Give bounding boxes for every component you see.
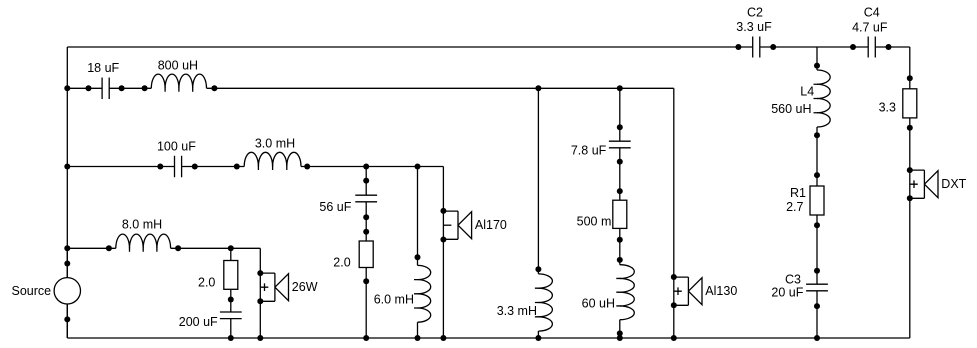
- resistor 500 m: [613, 200, 627, 228]
- svg-text:500 m: 500 m: [577, 215, 612, 229]
- dots AI130 column: [671, 274, 677, 341]
- svg-text:26W: 26W: [292, 280, 318, 294]
- junction dots row4: [64, 245, 234, 251]
- svg-text:C3: C3: [785, 272, 801, 286]
- svg-text:800 uH: 800 uH: [158, 58, 198, 72]
- dots 620 column: [617, 124, 623, 341]
- wire 2.0/200uF shunt column: [230, 248, 232, 338]
- wire 6.0 mH shunt column: [417, 167, 419, 339]
- dots AI170 column: [440, 208, 446, 341]
- svg-text:C4: C4: [864, 5, 880, 19]
- capacitor 100 uF: [175, 156, 182, 178]
- svg-text:4.7 uF: 4.7 uF: [852, 20, 888, 34]
- inductor 3.3 mH: [538, 274, 552, 331]
- svg-text:R1: R1: [790, 186, 806, 200]
- wire L4/R1/C3 column: [816, 47, 818, 338]
- svg-text:18 uF: 18 uF: [87, 61, 119, 75]
- inductor 8.0 mH: [116, 234, 171, 248]
- speaker 26W woofer: [260, 273, 288, 301]
- dots 56uF/2.0 column: [363, 178, 369, 341]
- svg-text:56 uF: 56 uF: [319, 200, 351, 214]
- svg-text:7.8 uF: 7.8 uF: [571, 144, 607, 158]
- capacitor 18 uF: [102, 78, 109, 100]
- svg-text:2.0: 2.0: [333, 256, 350, 270]
- speaker Al170 midrange: [443, 211, 471, 239]
- svg-text:3.0 mH: 3.0 mH: [255, 136, 295, 150]
- inductor L4 560 uH: [817, 70, 830, 127]
- wire top bus: [67, 46, 910, 48]
- capacitor C3 20 uF: [806, 284, 828, 291]
- svg-text:2.0: 2.0: [198, 276, 215, 290]
- resistor 2.0 (midrange): [359, 241, 373, 268]
- svg-text:200 uF: 200 uF: [179, 315, 218, 329]
- inductor 6.0 mH: [418, 265, 431, 322]
- wire row3 midrange-branch horizontal: [67, 166, 443, 168]
- speaker DXT tweeter: [910, 170, 938, 198]
- wire 7.8uF/500m/60uH column: [619, 88, 621, 338]
- svg-text:60 uH: 60 uH: [582, 296, 615, 310]
- source terminal dots: [64, 261, 70, 323]
- resistor R1 2.7: [810, 186, 824, 215]
- capacitor 200 uF: [220, 312, 242, 319]
- svg-text:560 uH: 560 uH: [771, 102, 811, 116]
- capacitor C4 4.7 uF: [868, 37, 875, 58]
- dots 3.3 mH column: [535, 266, 541, 341]
- capacitor C2 3.3 uF: [753, 37, 760, 58]
- dots 26W column: [257, 270, 263, 341]
- inductor 60 uH: [620, 265, 635, 320]
- wire left bus vertical: [66, 47, 68, 338]
- wire 26W speaker column: [259, 248, 261, 338]
- wire 56uF/2.0 shunt column: [365, 167, 367, 339]
- svg-text:Source: Source: [12, 284, 52, 298]
- svg-text:C2: C2: [747, 6, 763, 20]
- svg-text:L4: L4: [800, 84, 814, 98]
- inductor 800 uH: [151, 74, 206, 88]
- wire bottom bus: [67, 337, 910, 339]
- svg-text:Al130: Al130: [705, 284, 737, 298]
- svg-text:DXT: DXT: [941, 177, 966, 191]
- wire source column stubs: [66, 248, 68, 338]
- junction dots row2: [64, 85, 623, 91]
- capacitor 7.8 uF: [609, 141, 631, 148]
- wire AI170 speaker column: [442, 167, 444, 339]
- svg-text:8.0 mH: 8.0 mH: [122, 218, 162, 232]
- resistor 2.0 (woofer zobel): [224, 261, 238, 290]
- svg-text:3.3: 3.3: [879, 101, 896, 115]
- wire 3.3 mH shunt column: [537, 88, 539, 338]
- wire row4 woofer-branch horizontal: [67, 247, 260, 249]
- wire right vertical: [909, 47, 911, 338]
- junction dots row3: [64, 164, 420, 170]
- dots right column: [907, 75, 913, 201]
- resistor 3.3 (tweeter): [903, 89, 917, 118]
- svg-text:Al170: Al170: [475, 218, 507, 232]
- svg-text:6.0 mH: 6.0 mH: [374, 293, 414, 307]
- svg-text:2.7: 2.7: [786, 200, 803, 214]
- svg-text:3.3 mH: 3.3 mH: [497, 304, 537, 318]
- inductor 3.0 mH: [244, 152, 301, 166]
- dots top bus: [735, 44, 891, 50]
- dots 2.0/200uF column: [228, 297, 234, 342]
- svg-text:20 uF: 20 uF: [771, 286, 803, 300]
- source V1: [54, 278, 80, 304]
- speaker Al130: [674, 277, 702, 305]
- wire AI130 speaker column: [673, 88, 675, 338]
- dots 6.0 mH column: [415, 254, 421, 341]
- capacitor 56 uF: [355, 195, 377, 202]
- svg-text:100 uF: 100 uF: [157, 140, 196, 154]
- wire row2 tweeter-branch horizontal: [67, 87, 674, 89]
- svg-text:3.3 uF: 3.3 uF: [736, 20, 772, 34]
- dots L4/R1/C3 column: [814, 63, 820, 341]
